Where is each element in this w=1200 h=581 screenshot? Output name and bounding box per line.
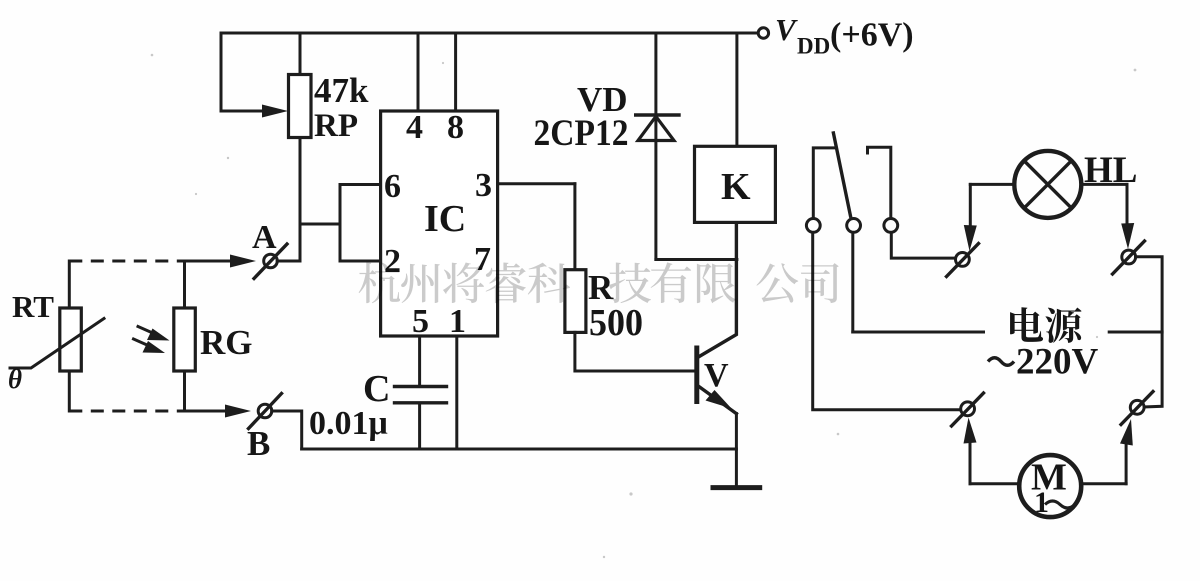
wire wiper to pin loop — [300, 223, 340, 226]
scan speckles — [151, 54, 1137, 559]
wire left loop down — [220, 33, 223, 111]
RG light arrow 1 — [138, 327, 170, 341]
thermistor RT body — [60, 308, 82, 371]
label 电源 — [1010, 307, 1081, 343]
wire wiper arrow shaft — [221, 110, 266, 113]
svg-text:0.01μ: 0.01μ — [309, 405, 388, 442]
wire bottom rail — [302, 448, 737, 451]
wire diode top — [654, 33, 657, 260]
node A circle — [264, 254, 278, 268]
motor contact left slash — [952, 393, 984, 426]
wire RT bottom — [68, 371, 71, 411]
node B circle — [258, 404, 272, 418]
wiper arrowhead — [262, 105, 288, 118]
wire A to RP column — [277, 260, 300, 263]
svg-text:θ: θ — [8, 364, 22, 394]
motor contact right circle — [1130, 400, 1144, 414]
wire VDD top rail — [221, 32, 756, 35]
svg-text:47k: 47k — [314, 71, 369, 110]
wire pin 5 — [418, 336, 421, 385]
wire R top — [573, 184, 576, 270]
svg-text:4: 4 — [406, 109, 423, 146]
wire R bottom to base — [575, 332, 695, 371]
transistor V emitter — [698, 386, 737, 414]
lamp contact left arrow — [964, 184, 977, 251]
capacitor C plates — [395, 387, 447, 403]
switch pole 2 circle — [847, 219, 861, 233]
svg-text:B: B — [247, 424, 270, 463]
motor contact right arrow — [1120, 419, 1133, 484]
svg-text:5: 5 — [412, 303, 429, 340]
wire RP top — [299, 33, 302, 75]
wire lamp right — [1081, 183, 1127, 186]
wire pole2 down to mains left — [853, 233, 984, 333]
wire lamp left — [970, 183, 1014, 186]
wire mains right stub — [1109, 331, 1162, 334]
wire lamp to right column — [1136, 257, 1163, 407]
label VDD (+6V) — [775, 12, 914, 59]
svg-text:V: V — [704, 357, 729, 394]
svg-text:500: 500 — [589, 302, 643, 344]
wire switch right upper — [868, 147, 891, 218]
svg-text:2CP12: 2CP12 — [534, 113, 629, 154]
wire pin 4 — [417, 33, 420, 111]
svg-text:6: 6 — [384, 168, 401, 205]
wire dashed bottom — [69, 410, 184, 413]
lamp contact left circle — [956, 253, 970, 267]
wire RT top — [68, 261, 71, 308]
photoresistor RG body — [174, 308, 196, 371]
wire switch left upper — [813, 148, 835, 218]
node B arrowhead — [225, 405, 251, 418]
motor contact left arrow — [964, 418, 977, 484]
wire motor right — [1081, 482, 1126, 485]
thermistor RT diagonal — [10, 319, 104, 369]
transistor V base bar — [694, 348, 699, 402]
svg-text:V: V — [775, 12, 798, 47]
lamp contact right circle — [1122, 250, 1136, 264]
wire pin 8 — [454, 33, 457, 111]
relay K box — [695, 146, 776, 222]
motor contact left circle — [961, 402, 975, 416]
op-amp IC box — [381, 111, 498, 336]
resistor R body — [565, 270, 586, 333]
svg-text:IC: IC — [424, 198, 466, 240]
wire emitter down — [735, 414, 738, 488]
wire pin 3 — [498, 182, 575, 185]
node A arrow shaft — [185, 260, 235, 263]
svg-text:1: 1 — [449, 303, 466, 340]
switch pole 1 circle — [806, 219, 820, 233]
motor contact right slash — [1121, 392, 1153, 425]
node A slash — [254, 244, 287, 279]
svg-text:DD: DD — [797, 34, 830, 59]
wire diode bottom — [656, 258, 737, 261]
RG light arrow 2 — [134, 339, 166, 353]
watermark 杭州将睿科技有限公司 — [359, 262, 839, 303]
wire B to bottom rail — [272, 411, 302, 449]
svg-text:220V: 220V — [1016, 342, 1099, 383]
lamp contact right slash — [1113, 241, 1145, 274]
svg-text:8: 8 — [447, 109, 464, 146]
wire RP bottom — [299, 138, 302, 262]
ground — [711, 485, 763, 490]
diode VD triangle — [638, 116, 674, 140]
switch blade — [833, 133, 850, 216]
svg-text:RP: RP — [314, 108, 358, 144]
svg-text:RT: RT — [12, 289, 54, 324]
wire pin6-pin2 loop — [340, 185, 381, 262]
switch pole 3 circle — [884, 219, 898, 233]
node VDD terminal — [758, 28, 768, 38]
lamp contact left slash — [947, 244, 979, 277]
lamp HL circle — [1014, 151, 1081, 218]
transistor V collector — [698, 222, 737, 357]
wire motor left — [970, 482, 1019, 485]
wire pole3 down to lamp row — [891, 233, 954, 259]
resistor RP body — [289, 75, 312, 138]
svg-text:(+6V): (+6V) — [830, 17, 914, 54]
motor M circle — [1019, 455, 1081, 517]
wire RG top — [183, 261, 186, 308]
diode VD cathode bar — [636, 113, 679, 116]
node B slash — [249, 394, 282, 429]
node A arrowhead — [230, 255, 256, 268]
lamp HL cross — [1024, 161, 1071, 208]
svg-text:K: K — [721, 166, 751, 208]
wire pin 1 — [455, 336, 458, 449]
label ~220V — [988, 342, 1099, 383]
wire pole1 down to motor row — [813, 233, 960, 410]
lamp contact right arrow — [1121, 184, 1134, 249]
wire RG bottom — [183, 371, 186, 411]
wire K top — [735, 33, 738, 146]
wire C bottom — [418, 403, 421, 449]
svg-text:3: 3 — [475, 167, 492, 204]
svg-text:2: 2 — [384, 243, 401, 280]
svg-text:RG: RG — [200, 323, 253, 362]
svg-text:C: C — [363, 368, 390, 410]
svg-text:A: A — [252, 219, 277, 256]
node B arrow shaft — [185, 410, 230, 413]
wire dashed top — [69, 260, 184, 263]
label 1~ — [1034, 486, 1075, 519]
wire mains left stub — [853, 331, 984, 334]
